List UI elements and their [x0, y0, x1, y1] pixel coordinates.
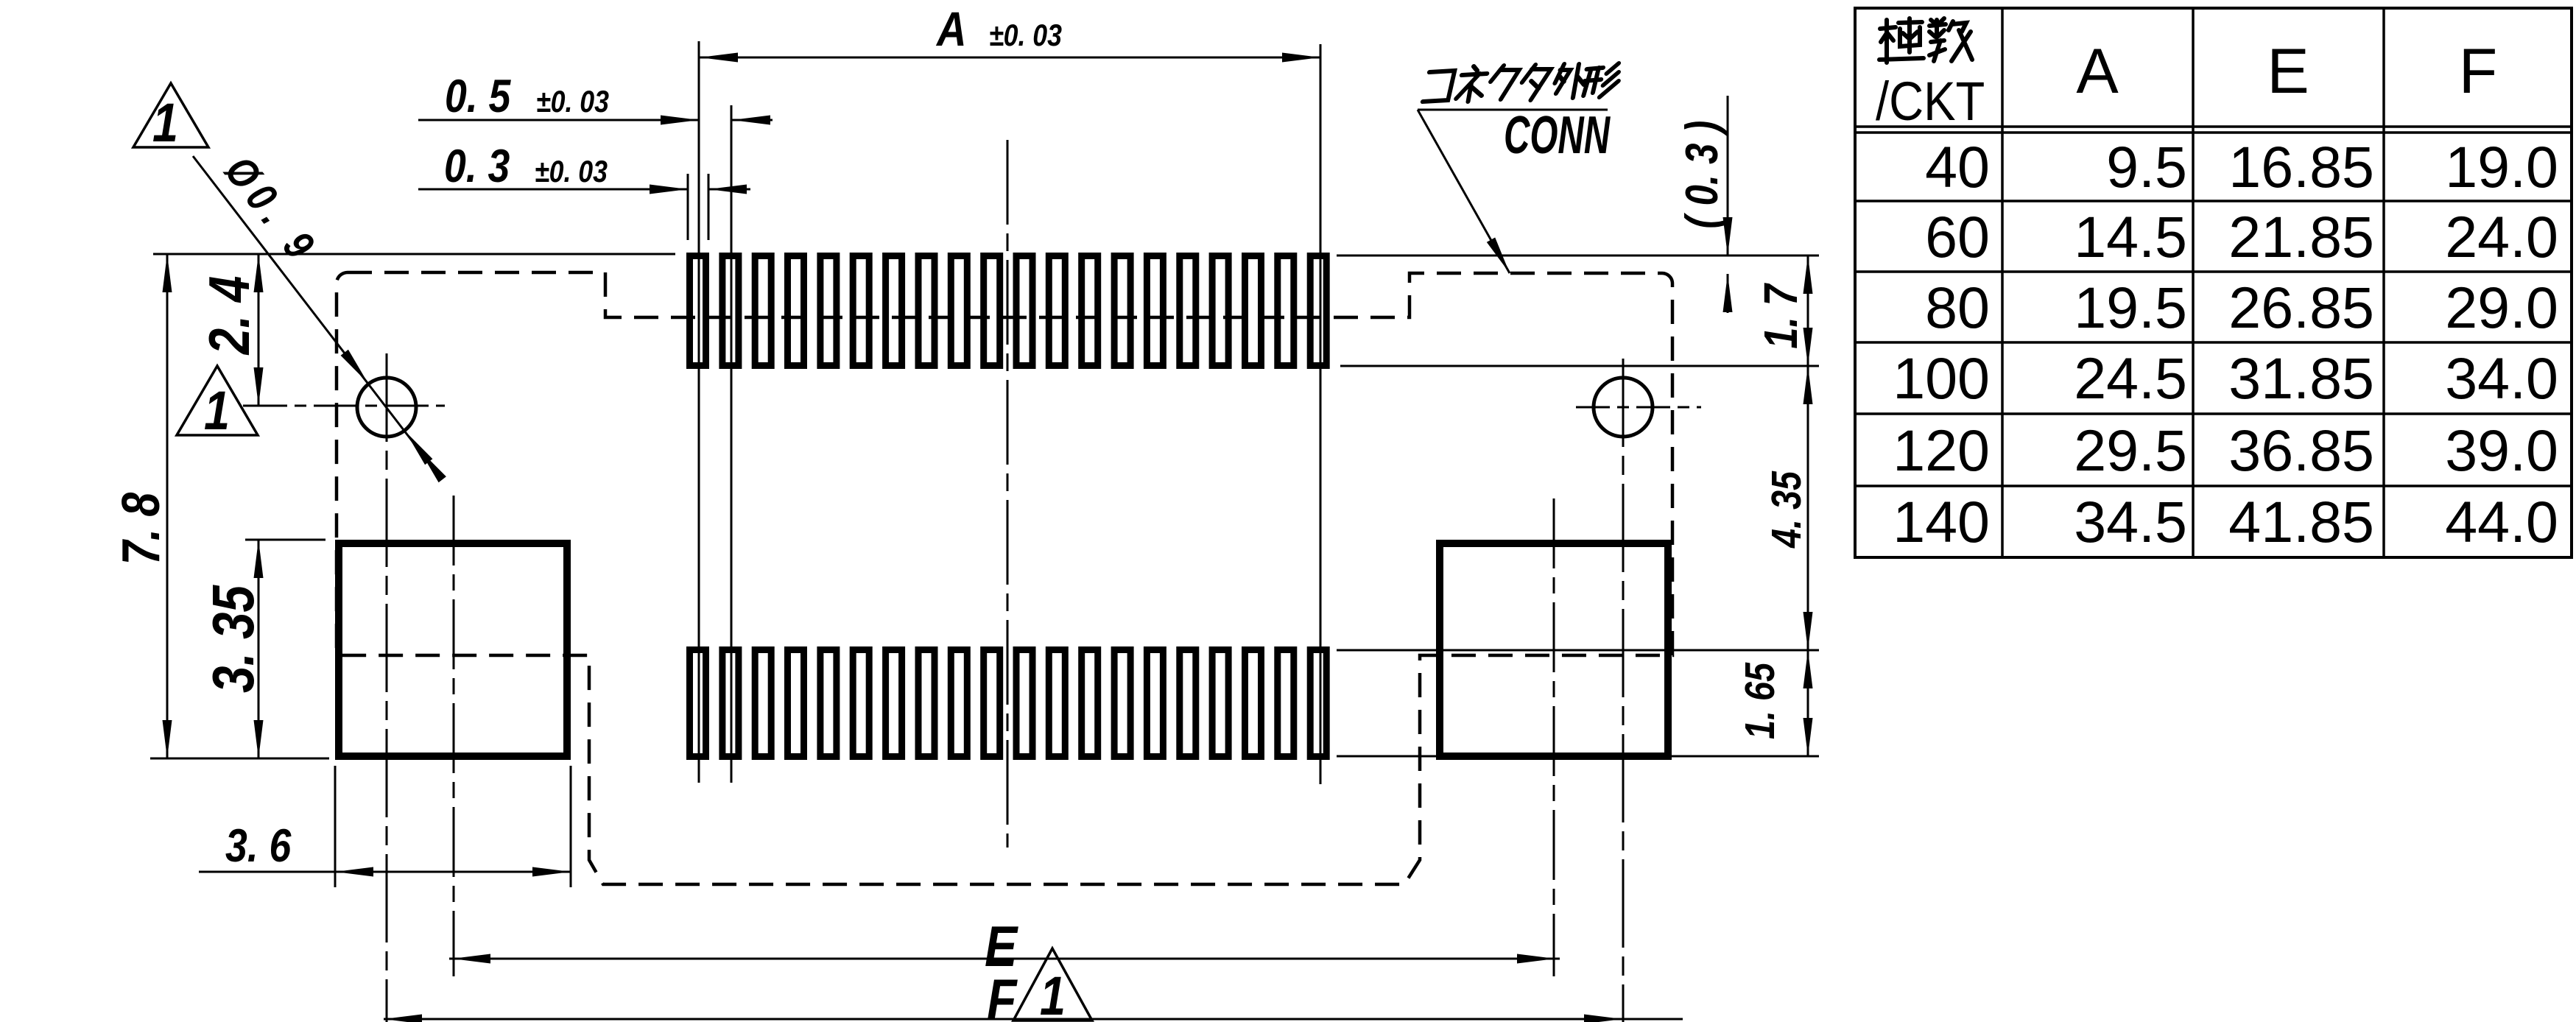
- top extension line for 3.35: [245, 539, 325, 541]
- svg-text:1: 1: [204, 380, 230, 441]
- svg-text:14.5: 14.5: [2074, 204, 2187, 269]
- svg-text:41.85: 41.85: [2228, 489, 2374, 554]
- dimension 2.4 label: [197, 276, 261, 356]
- svg-text:24.0: 24.0: [2445, 204, 2558, 269]
- svg-text:39.0: 39.0: [2445, 417, 2558, 483]
- svg-text:±0. 03: ±0. 03: [989, 18, 1062, 52]
- svg-text:0. 3: 0. 3: [444, 141, 510, 192]
- diameter label Ø0.9: [216, 148, 328, 273]
- datum triangle 1 (at hole centerline): [177, 366, 258, 435]
- table header kyokusuu/CKT: [1879, 18, 1924, 63]
- dimension F line: [384, 1018, 1683, 1021]
- right square pad centerline (E): [1553, 498, 1555, 976]
- datum triangle 1 (top left): [133, 83, 208, 147]
- top row of 20 SMT pads (0.3 wide, 0.5 pitch): [690, 256, 1327, 366]
- table header F: [2459, 36, 2498, 107]
- dimension 1.65 label: [1737, 662, 1784, 739]
- dimension 7.8 line: [166, 254, 169, 758]
- svg-text:21.85: 21.85: [2228, 204, 2374, 269]
- svg-text:26.85: 26.85: [2228, 275, 2374, 340]
- extension line pad20 center x=1793 (A dim right): [1320, 44, 1322, 784]
- right square fitting-nail pad: [1440, 543, 1668, 756]
- dimension 0.5 ±0.03 line: [418, 119, 699, 121]
- svg-text:4. 35: 4. 35: [1764, 471, 1810, 549]
- svg-text:/CKT: /CKT: [1876, 71, 1985, 132]
- dimension 1.7/4.35/1.65 line: [1807, 255, 1809, 756]
- bottom pad bottom extension line y=1027: [1337, 755, 1819, 758]
- svg-text:40: 40: [1925, 134, 1990, 200]
- svg-text:E: E: [2267, 36, 2309, 107]
- extension line pad1 right x=962: [708, 174, 710, 240]
- svg-text:100: 100: [1893, 345, 1990, 411]
- svg-text:80: 80: [1925, 275, 1990, 340]
- left square pad centerline (E): [453, 496, 455, 976]
- svg-text:44.0: 44.0: [2445, 489, 2558, 554]
- leader from CONN label to outline: [1418, 110, 1510, 273]
- connector body outline (dashed): [337, 272, 1672, 884]
- table row lines: [1855, 200, 2572, 202]
- left mount-hole horizontal centerline: [243, 405, 445, 407]
- dimension 3.6 label: [225, 820, 292, 872]
- svg-text:F: F: [987, 968, 1018, 1022]
- dimension A label: [935, 2, 966, 56]
- dimension (0.3) line: [1727, 96, 1729, 255]
- table header A: [2076, 36, 2119, 107]
- svg-text:F: F: [2459, 36, 2498, 107]
- table column dividers: [2001, 8, 2004, 557]
- table border: [1855, 8, 2572, 557]
- left mounting hole (diameter 0.9): [357, 378, 416, 437]
- dimension 3.35 label: [200, 585, 267, 693]
- dimension 2.4 line: [258, 254, 260, 406]
- dimension 0.5 tolerance: [536, 85, 609, 119]
- top pad bottom extension line y=497: [1340, 365, 1819, 367]
- dimension 1.7 label: [1755, 283, 1807, 349]
- table header separator double line: [1855, 125, 2572, 128]
- svg-text:19.0: 19.0: [2445, 134, 2558, 200]
- bottom pad top extension line y=883: [1337, 649, 1819, 652]
- bottom extension line for 7.8 and 3.35: [150, 758, 329, 760]
- svg-text:29.0: 29.0: [2445, 275, 2558, 340]
- svg-text:CONN: CONN: [1504, 106, 1611, 166]
- right mount-hole vertical centerline / F datum line: [1622, 359, 1625, 1022]
- top edge extension line y=344 left segment: [153, 253, 675, 255]
- svg-text:120: 120: [1893, 417, 1990, 483]
- dimension 0.3 label: [444, 141, 510, 192]
- svg-text:36.85: 36.85: [2228, 417, 2374, 483]
- svg-text:3. 35: 3. 35: [200, 585, 267, 693]
- label connector outline (katakana) underline: [1418, 109, 1608, 111]
- dimension F label: [987, 968, 1018, 1022]
- svg-text:±0. 03: ±0. 03: [536, 85, 609, 119]
- svg-text:3. 6: 3. 6: [225, 820, 292, 872]
- top edge extension line y=344 right segment: [1337, 255, 1819, 257]
- svg-text:0. 5: 0. 5: [445, 71, 512, 122]
- dimension A tolerance ±0.03: [989, 18, 1062, 52]
- svg-text:±0. 03: ±0. 03: [535, 155, 608, 188]
- svg-text:1: 1: [1040, 965, 1066, 1022]
- dimension 3.6 line: [199, 871, 571, 873]
- svg-text:7. 8: 7. 8: [110, 492, 170, 565]
- dimension E line: [449, 958, 1560, 960]
- svg-text:A: A: [2076, 36, 2119, 107]
- table header E: [2267, 36, 2309, 107]
- svg-text:29.5: 29.5: [2074, 417, 2187, 483]
- leader line phi0.9 to left hole: [193, 156, 429, 462]
- table data rows: [1893, 134, 2558, 554]
- label katakana konekuta-gaikei (connector outline): [1423, 71, 1454, 102]
- dimension 0.3 ±0.03 line: [418, 188, 688, 191]
- dimension 7.8 label: [110, 492, 170, 565]
- vertical centerline of drawing: [1007, 140, 1009, 847]
- svg-text:19.5: 19.5: [2074, 275, 2187, 340]
- dimension E label: [985, 914, 1019, 979]
- bottom row of 20 SMT pads: [690, 650, 1327, 757]
- extension line 3.6 right x=775: [570, 766, 572, 887]
- svg-text:9.5: 9.5: [2106, 134, 2187, 200]
- svg-text:1. 7: 1. 7: [1755, 283, 1807, 349]
- datum triangle 1 (on F dimension): [1013, 948, 1092, 1021]
- svg-text:( 0. 3 ): ( 0. 3 ): [1677, 121, 1728, 229]
- dimension 3.35 line: [258, 540, 260, 758]
- svg-text:34.5: 34.5: [2074, 489, 2187, 554]
- svg-text:140: 140: [1893, 489, 1990, 554]
- left square fitting-nail pad: [339, 543, 567, 756]
- extension line pad2 center x=993: [731, 105, 733, 783]
- label CONN: [1504, 106, 1611, 166]
- svg-text:60: 60: [1925, 204, 1990, 269]
- svg-text:1. 65: 1. 65: [1737, 662, 1784, 739]
- svg-text:2. 4: 2. 4: [197, 276, 261, 356]
- svg-text:31.85: 31.85: [2228, 345, 2374, 411]
- extension line pad1 center x=949: [698, 41, 700, 783]
- left mount-hole vertical centerline / F datum line: [386, 353, 388, 1022]
- svg-text:24.5: 24.5: [2074, 345, 2187, 411]
- right mount-hole horizontal centerline: [1576, 406, 1701, 409]
- dimension 0.3 tolerance: [535, 155, 608, 188]
- extension line pad1 left x=934: [687, 174, 689, 240]
- svg-text:34.0: 34.0: [2445, 345, 2558, 411]
- dimension (0.3) label: [1677, 121, 1728, 229]
- dimension 0.5 label: [445, 71, 512, 122]
- svg-text:16.85: 16.85: [2228, 134, 2374, 200]
- svg-text:A: A: [935, 2, 966, 56]
- extension line 3.6 left x=455: [334, 766, 337, 887]
- dimension A ±0.03 line: [700, 57, 1320, 59]
- right mounting hole: [1594, 378, 1653, 437]
- svg-text:1: 1: [152, 92, 178, 153]
- dimension 4.35 label: [1764, 471, 1810, 549]
